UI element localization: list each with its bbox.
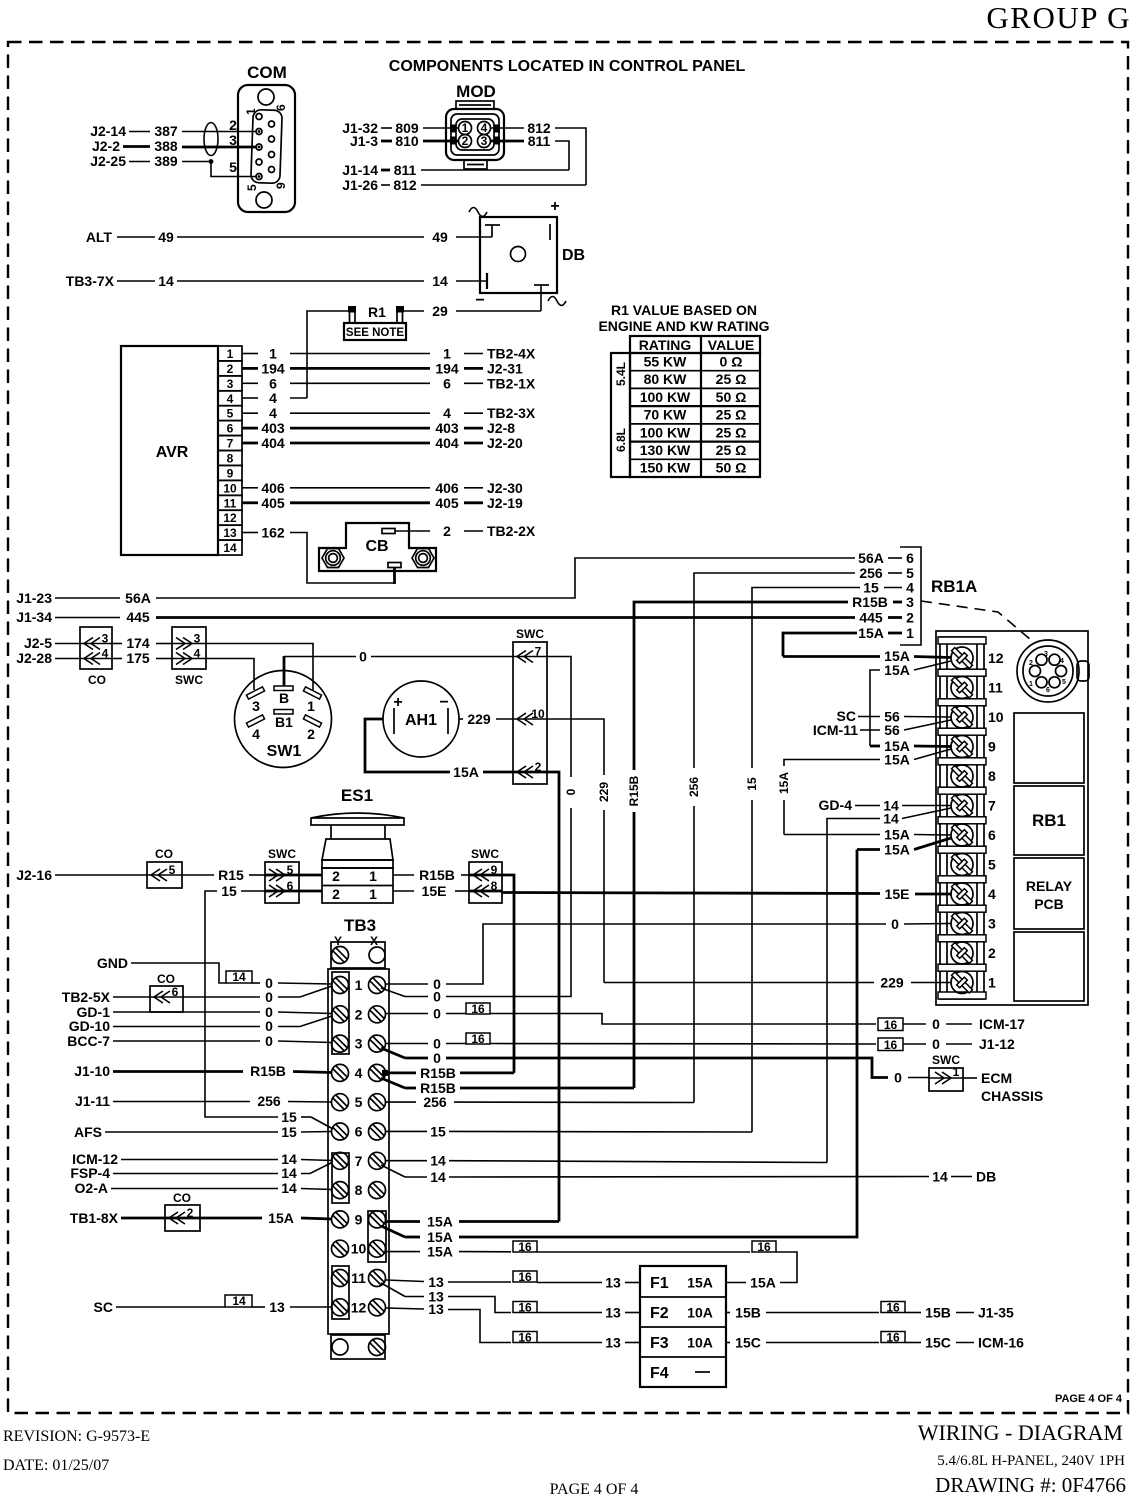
svg-text:+: + [550,198,559,215]
svg-text:3: 3 [988,916,996,932]
wire ICM-12 14 to TB3 Y7 [72,1151,332,1167]
wire F2 output 15B to J1-35 [726,1301,1014,1321]
svg-text:445: 445 [859,610,883,626]
AVR pin 13 wire 162 to CB [242,525,395,585]
svg-text:8: 8 [355,1182,363,1198]
wire net 15A thick vertical [547,772,559,1222]
svg-text:14: 14 [883,811,899,827]
svg-text:6: 6 [227,422,234,436]
wire MOD pin3 to 811 right loop [490,133,569,170]
svg-text:ICM-11: ICM-11 [813,722,858,738]
svg-text:3: 3 [1044,651,1048,658]
connector CO box 5 [147,847,182,888]
svg-text:PCB: PCB [1034,896,1064,912]
svg-text:14: 14 [430,1153,446,1169]
wire CB to 2 TB2-2X [395,523,536,539]
RB1 sub box RELAY PCB [1014,858,1084,929]
svg-text:J1-23: J1-23 [16,590,52,606]
wire J1-3 810 to MOD pin2 [350,133,458,149]
wire ICM-11 56 to terminal 10 [813,720,951,738]
svg-text:25 Ω: 25 Ω [716,424,747,440]
svg-text:404: 404 [261,435,285,451]
svg-text:15E: 15E [885,886,910,902]
svg-text:256: 256 [423,1094,447,1110]
svg-text:14: 14 [932,1169,948,1185]
battery meter AH1 [383,681,459,757]
svg-text:55 KW: 55 KW [644,354,688,370]
svg-text:4: 4 [252,726,260,742]
svg-text:811: 811 [528,133,551,149]
svg-text:14: 14 [281,1180,297,1196]
wire J2-5 174 [24,635,172,651]
svg-text:COMPONENTS LOCATED IN CONTROL: COMPONENTS LOCATED IN CONTROL PANEL [389,58,746,75]
svg-text:ENGINE AND KW RATING: ENGINE AND KW RATING [598,318,769,334]
wire TB3 X1 0 to RB1 terminal 3 [386,916,951,992]
wire BCC-7 0 to TB3 Y3 [67,1033,332,1049]
svg-text:194: 194 [261,360,285,376]
svg-text:2: 2 [462,134,469,148]
svg-text:6: 6 [1046,687,1050,694]
svg-text:130 KW: 130 KW [640,442,691,458]
wire SC 13 to TB3 Y12 [94,1294,332,1315]
wire J1-14 811 [342,162,569,178]
svg-text:3: 3 [481,134,488,148]
svg-text:16: 16 [886,1331,900,1345]
wire segments through connector boxes [80,644,963,1219]
wire J2-28 175 [16,650,172,666]
svg-text:2: 2 [988,945,996,961]
svg-text:TB3: TB3 [344,916,376,935]
svg-text:ICM-16: ICM-16 [978,1335,1024,1351]
svg-text:15B: 15B [925,1305,951,1321]
svg-text:404: 404 [435,435,459,451]
svg-text:387: 387 [154,123,178,139]
wire TB3 X9 15A to AH1 net [386,1214,559,1230]
wire AH1 229 to SWC10 [459,711,513,727]
svg-text:DB: DB [976,1169,996,1185]
svg-text:16: 16 [884,1018,898,1032]
AVR pin 2 wire 194 to J2-31 [242,360,523,376]
svg-text:SWC: SWC [516,627,544,641]
svg-text:15C: 15C [735,1335,761,1351]
svg-text:2: 2 [1029,660,1033,667]
svg-text:14: 14 [223,541,237,555]
svg-text:3: 3 [194,632,201,646]
wire 56A to RB1A pin 6 [858,550,914,566]
terminal block TB3 [328,916,389,1359]
svg-text:6: 6 [443,375,451,391]
svg-text:CHASSIS: CHASSIS [981,1088,1043,1104]
svg-text:0: 0 [433,1006,441,1022]
svg-text:5: 5 [245,184,259,191]
wire TB3 X9 15A to RB1 terminal 6 [381,850,857,1246]
svg-text:5: 5 [287,863,294,877]
svg-text:14: 14 [158,273,174,289]
svg-text:R15B: R15B [627,775,641,806]
wire CO5 R15 to SWC5 [182,867,265,883]
svg-text:15A: 15A [427,1229,453,1245]
svg-text:ECM: ECM [981,1070,1012,1086]
svg-text:4: 4 [269,390,277,406]
connector CO box 2 [165,1191,200,1231]
svg-text:15A: 15A [777,772,791,794]
svg-text:1: 1 [906,625,914,641]
svg-text:R1: R1 [368,304,386,320]
svg-text:16: 16 [886,1301,900,1315]
svg-text:15A: 15A [884,827,910,843]
svg-text:11: 11 [224,496,237,510]
svg-text:2: 2 [227,362,234,376]
svg-text:9: 9 [355,1211,363,1227]
svg-text:15A: 15A [750,1275,776,1291]
svg-text:1: 1 [369,886,377,902]
svg-text:12: 12 [351,1299,367,1315]
svg-text:56: 56 [884,722,900,738]
svg-text:2: 2 [535,760,542,774]
svg-text:ES1: ES1 [341,786,373,805]
svg-text:TB2-3X: TB2-3X [487,405,536,421]
MOD pin 3 [478,134,491,148]
svg-text:RB1A: RB1A [931,577,977,596]
svg-text:ALT: ALT [86,229,113,245]
svg-text:256: 256 [257,1093,281,1109]
svg-text:J2-20: J2-20 [487,435,523,451]
svg-text:CO: CO [173,1191,191,1205]
wire GND to TB3 Y1 [97,955,332,991]
svg-text:O2-A: O2-A [75,1180,108,1196]
svg-text:0: 0 [932,1036,940,1052]
svg-text:CB: CB [365,538,388,555]
wire ALT 49 to DB [86,229,492,245]
svg-text:J1-26: J1-26 [342,177,378,193]
svg-text:1: 1 [369,868,377,884]
connector SWC box 5/6 [265,847,299,903]
wire 15 to RB1A pin 4 [745,580,914,1133]
svg-text:10A: 10A [687,1305,713,1321]
svg-text:1: 1 [307,698,315,714]
wire R15B to RB1A pin 3 [627,594,914,1088]
svg-text:9: 9 [988,739,996,755]
svg-text:16: 16 [518,1240,532,1254]
svg-text:14: 14 [281,1165,297,1181]
wire net 229 vertical [547,719,611,983]
svg-text:J1-14: J1-14 [342,162,378,178]
svg-text:80 KW: 80 KW [644,371,688,387]
svg-text:810: 810 [395,133,419,149]
wire F3 output 15C to ICM-16 [726,1331,1024,1351]
svg-text:2: 2 [443,523,451,539]
svg-text:BCC-7: BCC-7 [67,1033,110,1049]
svg-text:GD-10: GD-10 [69,1018,110,1034]
wire GD-1 0 to TB3 Y2 [77,1004,332,1020]
svg-text:4: 4 [227,392,234,406]
emergency stop ES1 [311,786,404,903]
AVR pin 5 wire 4 to TB2-3X [242,405,536,421]
svg-text:10A: 10A [687,1335,713,1351]
wire 15A to RB1A pin 1 [783,625,914,657]
wire J2-14 to 387 to COM pin 2 [90,123,256,139]
svg-text:14: 14 [232,1294,246,1308]
svg-text:REVISION: G-9573-E: REVISION: G-9573-E [3,1428,150,1445]
wire SC 56 to terminal 10 [837,708,951,725]
svg-text:25 Ω: 25 Ω [716,407,747,423]
cable shield ellipse [204,123,218,156]
svg-text:13: 13 [428,1301,444,1317]
RB1 circular connector [1017,640,1089,702]
svg-text:R15B: R15B [852,594,888,610]
svg-text:TB1-8X: TB1-8X [70,1210,119,1226]
svg-text:5.4/6.8L H-PANEL, 240V 1PH: 5.4/6.8L H-PANEL, 240V 1PH [937,1453,1125,1469]
svg-text:TB2-5X: TB2-5X [62,989,111,1005]
svg-text:0: 0 [891,916,899,932]
svg-text:100 KW: 100 KW [640,389,691,405]
svg-text:25 Ω: 25 Ω [716,371,747,387]
svg-text:13: 13 [605,1275,621,1291]
svg-text:2: 2 [307,726,315,742]
connector SWC box 3/4 [172,627,206,687]
svg-text:9: 9 [491,863,498,877]
svg-text:0: 0 [433,1050,441,1066]
AVR pin 3 wire 6 to TB2-1X [242,375,536,391]
svg-text:3: 3 [227,377,234,391]
svg-text:3: 3 [102,632,109,646]
svg-text:6: 6 [172,985,179,999]
wire TB3 X4 R15B to RB1A pin3 [381,1078,634,1096]
svg-text:49: 49 [432,229,448,245]
wire F1 output 15A [726,1275,776,1291]
svg-text:229: 229 [880,975,904,991]
svg-text:15E: 15E [422,883,447,899]
svg-text:4: 4 [443,405,451,421]
COM pin field [244,104,288,191]
wire TB3 X4 R15B junction [382,1065,514,1081]
svg-text:J1-11: J1-11 [75,1093,110,1109]
AVR pin 4 wire [242,390,307,406]
svg-text:J2-25: J2-25 [90,153,126,169]
wire FSP-4 14 to TB3 Y7 [70,1163,332,1182]
svg-text:6: 6 [269,375,277,391]
diode bridge DB [469,198,566,309]
svg-text:10: 10 [988,709,1004,725]
svg-text:15: 15 [281,1109,297,1125]
svg-text:TB2-4X: TB2-4X [487,346,536,362]
svg-text:SWC: SWC [175,673,203,687]
svg-text:AFS: AFS [74,1124,102,1140]
RB1 terminal strip [938,637,1004,999]
svg-text:162: 162 [261,525,285,541]
connector SWC box 7/10/2 [513,627,547,784]
wire TB3 X1 0 to SW1 net [381,988,571,1005]
SEE NOTE box [344,323,406,340]
svg-text:3: 3 [252,698,260,714]
svg-text:25 Ω: 25 Ω [716,442,747,458]
wire 15A terminal 12 to terminal 9 link [870,661,951,746]
svg-text:388: 388 [154,138,178,154]
wire 15A to terminal 6 [784,827,951,843]
wire SWC6 15 down to TB3 [205,883,333,1129]
svg-text:GROUP G: GROUP G [986,0,1131,35]
svg-text:5: 5 [229,159,237,175]
svg-text:J2-5: J2-5 [24,635,52,651]
svg-text:15: 15 [281,1124,297,1140]
RB1 sub box 4 [1014,932,1084,1001]
wire AFS 15 to TB3 Y6 [74,1124,332,1140]
table note R1 VALUE BASED ON [598,302,769,334]
svg-text:2: 2 [187,1206,194,1220]
svg-text:CO: CO [88,673,106,687]
AVR pin column [218,346,242,555]
svg-text:SWC: SWC [268,847,296,861]
svg-text:0: 0 [265,1018,273,1034]
table cell texts [640,354,747,476]
AVR pin 7 wire 404 to J2-20 [242,435,523,451]
svg-text:15A: 15A [687,1275,713,1291]
svg-text:R1 VALUE BASED ON: R1 VALUE BASED ON [611,302,757,318]
svg-text:4: 4 [355,1065,363,1081]
wire 15A to terminal 9 [870,738,951,754]
wire TB1-8X 15A to TB3 Y9 [70,1210,332,1226]
svg-text:29: 29 [432,303,448,319]
svg-text:CO: CO [157,972,175,986]
svg-text:14: 14 [232,970,246,984]
svg-text:11: 11 [351,1270,366,1286]
svg-text:F4: F4 [650,1365,669,1382]
svg-text:J1-34: J1-34 [16,609,52,625]
svg-text:6: 6 [355,1124,363,1140]
connector SWC box 1 ECM [929,1053,1043,1104]
svg-text:B1: B1 [275,714,293,730]
wire GD-4 14 to terminal 7 [819,797,951,814]
svg-text:1: 1 [443,346,451,362]
svg-text:2: 2 [332,886,340,902]
svg-text:15A: 15A [427,1214,453,1230]
svg-text:J2-8: J2-8 [487,420,515,436]
svg-text:406: 406 [435,480,459,496]
svg-text:5: 5 [1062,679,1066,686]
wire TB3 X3 0 to ECM CHASSIS [381,1048,929,1086]
svg-text:6: 6 [274,104,288,111]
relay board RB1 outer box [936,631,1088,1005]
wire 15A terminal 9 to terminal 6 link [777,749,951,835]
svg-text:194: 194 [435,360,459,376]
wire SWC3 to SW1 pin1 [206,644,313,691]
svg-text:SEE NOTE: SEE NOTE [346,327,404,339]
svg-text:9: 9 [227,466,234,480]
ignition switch SW1 [235,656,332,768]
svg-text:1: 1 [227,347,234,361]
svg-text:0: 0 [564,788,578,795]
svg-text:15A: 15A [858,625,884,641]
svg-text:COM: COM [247,63,287,82]
svg-text:AH1: AH1 [405,712,437,729]
dashed leader RB1A to connector [921,601,1031,640]
svg-text:50 Ω: 50 Ω [716,389,747,405]
MOD pin 4 [478,121,491,135]
svg-text:WIRING - DIAGRAM: WIRING - DIAGRAM [918,1420,1123,1445]
svg-text:J2-31: J2-31 [487,360,523,376]
svg-text:−: − [475,292,484,309]
svg-text:PAGE 4 OF 4: PAGE 4 OF 4 [1055,1393,1123,1405]
svg-text:16: 16 [471,1032,485,1046]
svg-text:J1-10: J1-10 [74,1063,110,1079]
svg-text:49: 49 [158,229,174,245]
wire J2-25 to 389 to COM pin 5 [90,153,256,177]
svg-text:4: 4 [102,647,109,661]
wire SWC5 to ES1 [299,874,322,877]
svg-text:150 KW: 150 KW [640,460,691,476]
svg-text:50 Ω: 50 Ω [716,460,747,476]
wire TB3 X12 13 to F3 [386,1301,640,1351]
svg-text:6.8L: 6.8L [614,428,628,452]
svg-text:1: 1 [269,346,277,362]
svg-text:389: 389 [154,153,178,169]
svg-text:5: 5 [169,863,176,877]
RB1 sub box 1 [1014,713,1084,783]
connector SWC box 9/8 [469,847,502,903]
svg-text:406: 406 [261,480,285,496]
svg-text:DRAWING #: 0F4766: DRAWING #: 0F4766 [935,1473,1126,1497]
AVR pin 10 wire 406 to J2-30 [242,480,523,496]
wire 256 to RB1A pin 5 [687,565,914,1103]
svg-text:811: 811 [394,162,417,178]
wire 14 terminal 7 to TB3 X7 [827,808,951,1163]
svg-text:J2-14: J2-14 [90,123,126,139]
svg-text:16: 16 [518,1331,532,1345]
svg-text:8: 8 [988,768,996,784]
wire 29 DB to R1 [403,285,541,319]
svg-text:SWC: SWC [471,847,499,861]
svg-text:16: 16 [757,1240,771,1254]
wire TB3 X5 256 to RB1A pin5 [386,1094,694,1110]
wire J1-32 809 to MOD pin1 [342,120,458,136]
wire TB3 X7 14 to RB1 terminal 7 [386,1153,827,1169]
svg-text:403: 403 [435,420,459,436]
MOD pin 2 [459,134,472,148]
wire TB2-5X 0 to TB3 Y1 [62,986,332,1005]
wire ES1 R15B to SWC9 [393,867,469,883]
svg-text:3: 3 [906,594,914,610]
svg-text:F1: F1 [650,1275,669,1292]
connector CO box 6 [150,972,183,1012]
svg-text:70 KW: 70 KW [644,407,688,423]
svg-text:5: 5 [988,857,996,873]
svg-text:1: 1 [244,108,258,115]
svg-text:10: 10 [351,1241,367,1257]
resistor R1 [348,304,404,323]
wire SWC8 15E to RB1 terminal 4 [502,886,951,902]
connector MOD body [446,101,504,169]
svg-text:13: 13 [223,526,237,540]
wire TB3 X11 13 to F2 [381,1283,640,1321]
wire 229 to terminal 1 [604,975,951,991]
svg-text:10: 10 [531,707,545,721]
svg-text:15: 15 [430,1123,446,1139]
svg-text:100 KW: 100 KW [640,424,691,440]
svg-text:F2: F2 [650,1305,669,1322]
svg-text:14: 14 [432,273,448,289]
svg-text:9: 9 [274,182,288,189]
svg-text:405: 405 [435,495,459,511]
svg-text:SC: SC [94,1299,113,1315]
svg-text:MOD: MOD [456,82,496,101]
wire J2-16 to CO5 [16,867,147,883]
svg-text:4: 4 [269,405,277,421]
svg-text:256: 256 [687,777,701,797]
MOD pin 1 [459,121,472,135]
wire O2-A 14 to TB3 Y8 [75,1180,332,1196]
svg-text:0: 0 [265,989,273,1005]
svg-text:12: 12 [988,650,1004,666]
